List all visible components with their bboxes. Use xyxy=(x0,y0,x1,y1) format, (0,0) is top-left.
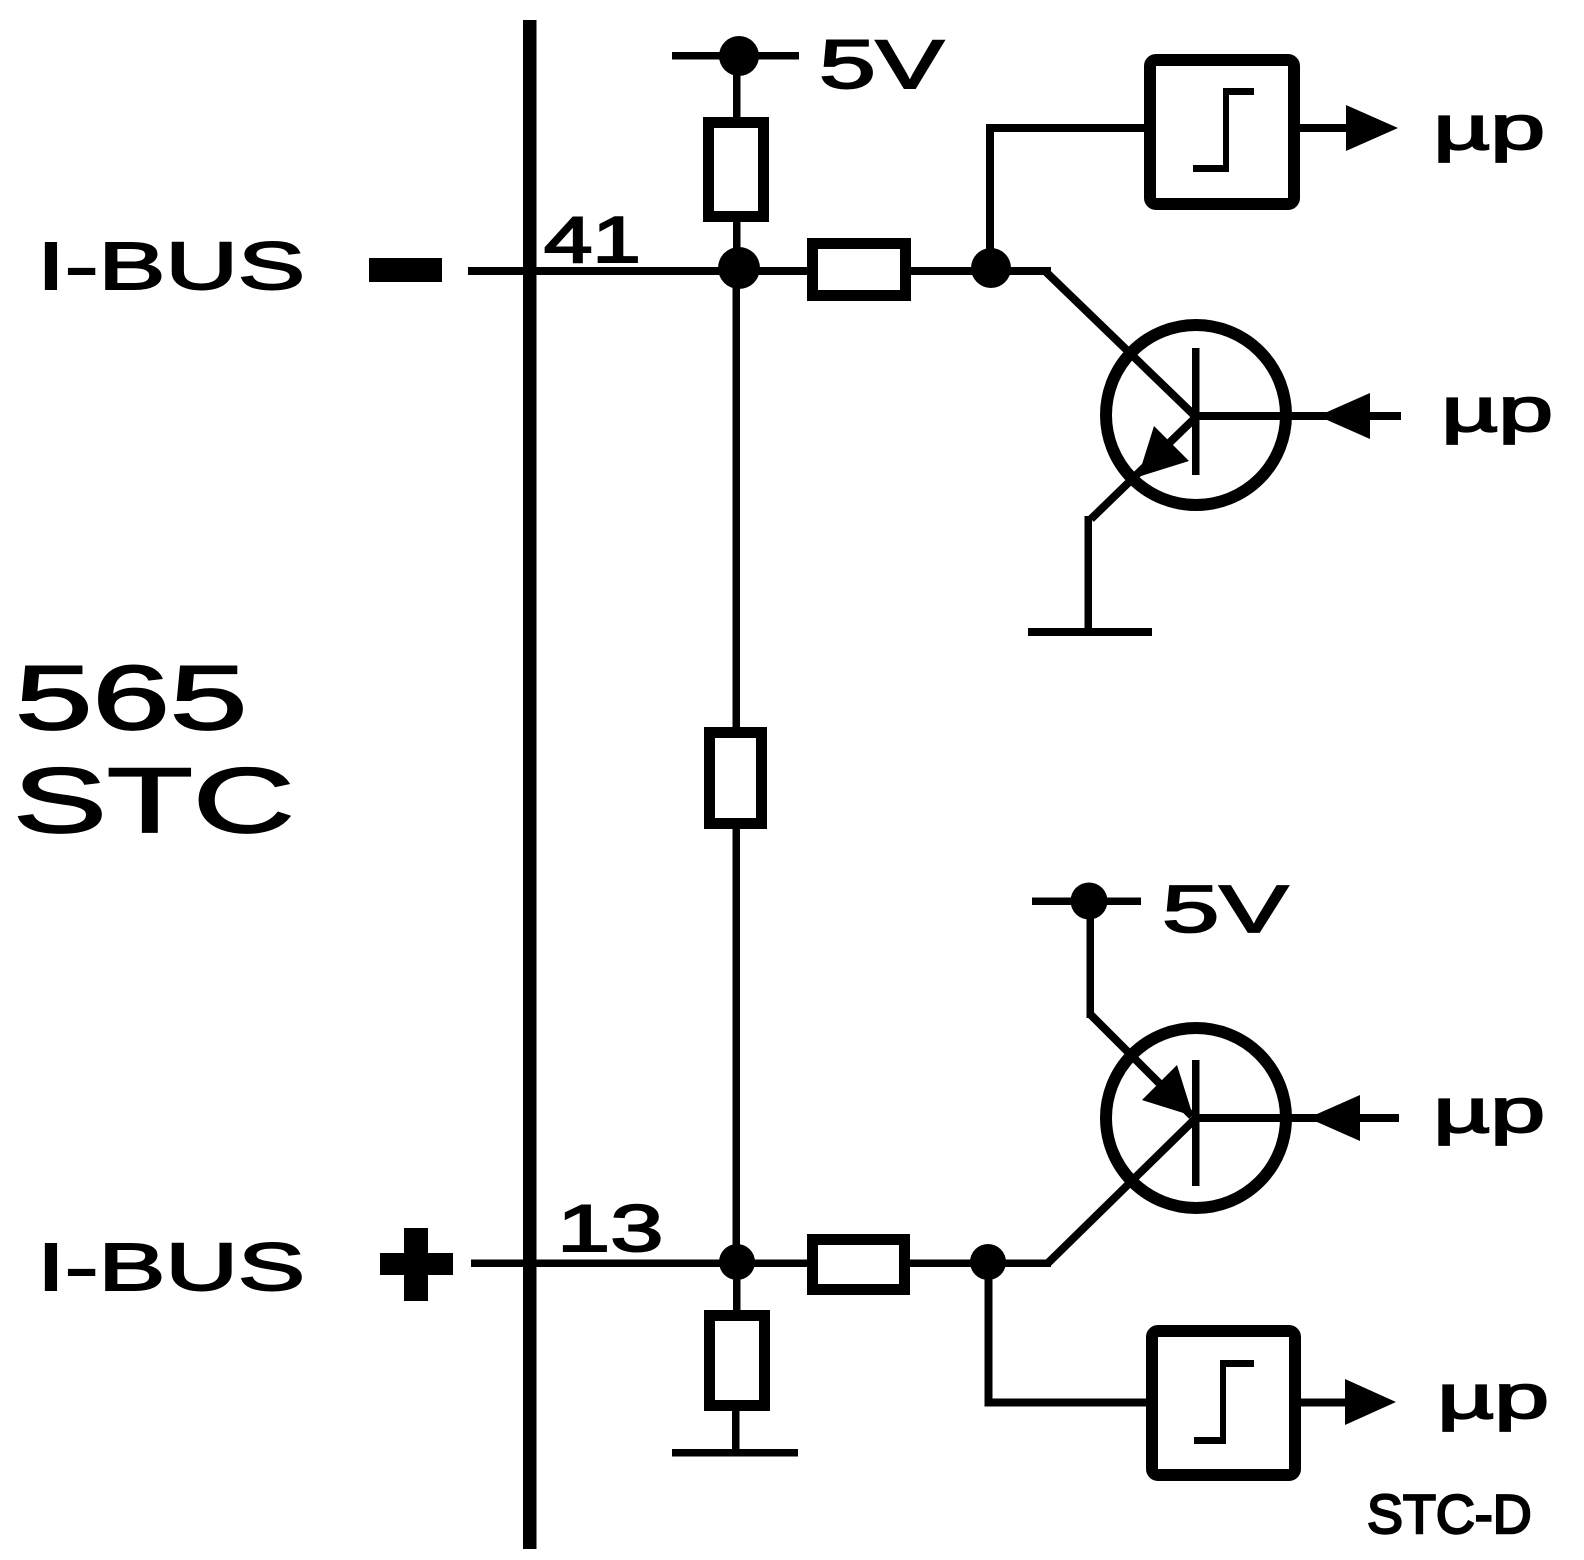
svg-text:5V: 5V xyxy=(1162,872,1288,947)
wire node B down to Schmitt U2 xyxy=(985,1262,993,1406)
wire 5V to resistor R1 xyxy=(733,56,741,121)
wire U2 output xyxy=(1295,1399,1348,1407)
wire pin-13 net horizontal xyxy=(471,1260,1051,1268)
node 13 junction dot xyxy=(719,1244,755,1280)
transistor Q2 circle xyxy=(1106,1028,1286,1208)
wire node A up to Schmitt U1 xyxy=(986,124,994,272)
plus sign (I-BUS positive) xyxy=(380,1228,453,1301)
Schmitt trigger U2 box xyxy=(1152,1331,1295,1475)
Q1 emitter diagonal xyxy=(1091,417,1196,519)
wire diagonal node A to Q1 collector xyxy=(1045,271,1196,417)
Q1 base wire to µp xyxy=(1196,412,1401,420)
wire 5V stub (top) xyxy=(672,52,799,60)
svg-text:5V: 5V xyxy=(819,26,944,103)
Q1 base bar xyxy=(1192,348,1200,475)
wire 5V stub (lower) xyxy=(1032,898,1141,906)
arrow U2 output to microprocessor xyxy=(1345,1379,1396,1425)
wire diagonal Q2 collector to node B xyxy=(1048,1118,1196,1263)
Q1 emitter arrowhead (pointing out) xyxy=(1138,426,1189,477)
node B junction dot (after R5) xyxy=(970,1244,1006,1280)
Schmitt U1 hysteresis symbol xyxy=(1223,88,1229,172)
resistor R4 (pull-down to ground) xyxy=(710,1316,765,1406)
svg-text:µp: µp xyxy=(1433,93,1545,163)
Q1 emitter wire to ground xyxy=(1085,516,1093,632)
ground symbol (bottom left) xyxy=(672,1449,798,1457)
wire R1 to node 41 xyxy=(733,218,741,273)
wire middle vertical (node41 to R3) xyxy=(733,269,741,731)
transistor Q1 circle xyxy=(1106,325,1286,505)
svg-text:µp: µp xyxy=(1437,1362,1549,1432)
svg-text:STC: STC xyxy=(13,749,295,852)
power 5V node dot (top) xyxy=(719,36,759,76)
svg-text:I-BUS: I-BUS xyxy=(37,229,305,304)
svg-text:13: 13 xyxy=(557,1192,663,1265)
svg-text:µp: µp xyxy=(1433,1076,1545,1146)
svg-text:µp: µp xyxy=(1441,375,1553,445)
wire diagonal 5V to Q2 emitter xyxy=(1090,1014,1192,1116)
wire 5V down to Q2 xyxy=(1087,901,1095,1018)
ground symbol (Q1 emitter) xyxy=(1028,628,1152,636)
arrow U1 output to microprocessor xyxy=(1346,105,1398,151)
Q2 base bar xyxy=(1192,1060,1200,1186)
Q2 base wire to µp xyxy=(1196,1114,1399,1122)
svg-text:565: 565 xyxy=(15,647,247,748)
wire U1 output xyxy=(1294,124,1348,132)
wire middle vertical (R3 to node13) xyxy=(733,825,741,1262)
Q2 emitter arrowhead (pointing in) xyxy=(1142,1065,1193,1116)
power 5V node dot (lower) xyxy=(1071,883,1108,920)
wire R4 to ground xyxy=(732,1405,740,1450)
svg-text:I-BUS: I-BUS xyxy=(37,1230,305,1305)
arrow µp into Q2 base xyxy=(1308,1095,1360,1141)
resistor R2 (series, pin41 net) xyxy=(813,244,906,296)
Schmitt U2 hysteresis symbol xyxy=(1220,1360,1226,1444)
minus sign (I-BUS negative) xyxy=(369,258,442,282)
svg-text:STC-D: STC-D xyxy=(1367,1484,1532,1546)
Schmitt trigger U1 box xyxy=(1150,60,1294,204)
node 41 junction dot xyxy=(718,247,760,289)
svg-text:41: 41 xyxy=(544,204,641,277)
resistor R3 (bus termination middle) xyxy=(710,733,762,824)
resistor R1 (pull-up to 5V) xyxy=(709,123,764,217)
bus bar (I-BUS backplane vertical line) xyxy=(523,20,537,1549)
wire pin-41 net horizontal xyxy=(468,267,1051,275)
node A junction dot (after R2) xyxy=(971,248,1011,288)
arrow µp into Q1 base xyxy=(1318,393,1370,439)
wire node13 to resistor R4 xyxy=(733,1262,741,1314)
resistor R5 (series, pin13 net) xyxy=(813,1240,905,1290)
